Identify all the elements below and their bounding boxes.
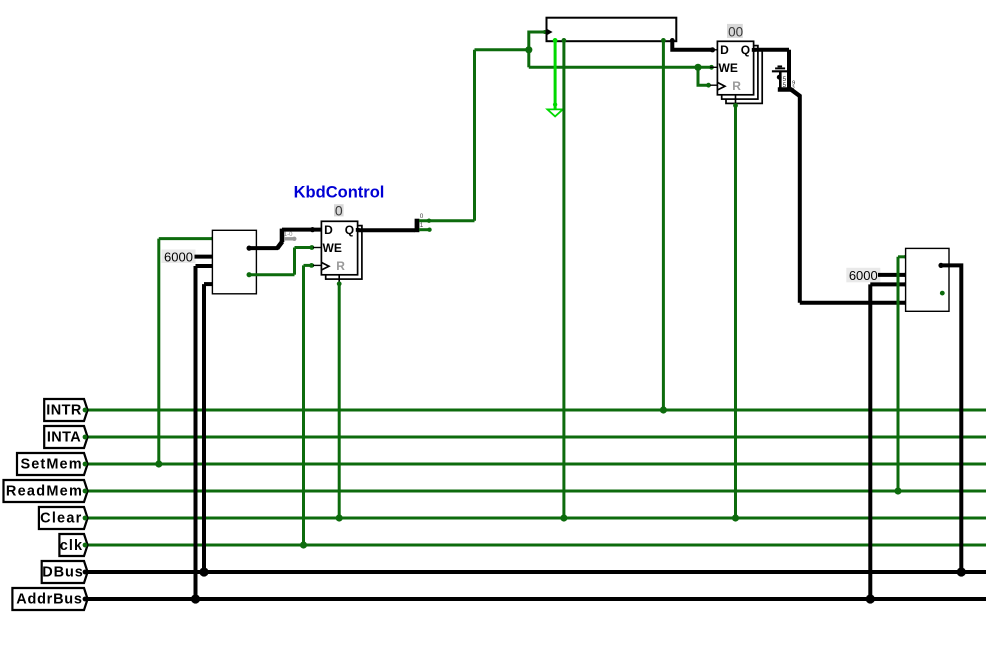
register FF2 value label 00 bbox=[727, 24, 743, 40]
wire 6000 left to box bbox=[195, 255, 213, 259]
splitter S1 diagonal bbox=[277, 242, 282, 249]
wire clk riser bbox=[302, 265, 305, 545]
wire top box pin3 to INTR bbox=[662, 41, 665, 410]
flip-flop U1 KbdControl register bbox=[313, 221, 362, 279]
svg-text:R: R bbox=[732, 79, 741, 93]
svg-text:R: R bbox=[336, 259, 345, 273]
splitter S1 bar bbox=[280, 229, 285, 242]
wire diagonal to riser bbox=[791, 90, 800, 97]
wire bit0 top horizontal bbox=[475, 48, 529, 51]
node top box pin2 port bbox=[562, 38, 567, 43]
wire AddrBus right into box bbox=[870, 282, 905, 286]
node right box addr port bbox=[904, 282, 909, 287]
wire FF1 Q output bbox=[358, 228, 415, 232]
node AddrBus right junction bbox=[866, 594, 875, 603]
wire splitter S2 bit0 leg bbox=[419, 219, 475, 222]
node FF1 R port bbox=[337, 281, 342, 286]
wire WE riser bbox=[293, 248, 296, 275]
subcircuit left box bbox=[212, 230, 256, 293]
node top box pin4 port bbox=[670, 38, 675, 43]
svg-text:D: D bbox=[324, 223, 333, 237]
wire clk bus horizontal bbox=[88, 544, 986, 547]
svg-text:6000: 6000 bbox=[164, 249, 193, 264]
node right box output port bbox=[938, 263, 943, 268]
svg-text:KbdControl: KbdControl bbox=[294, 184, 385, 202]
svg-text:WE: WE bbox=[323, 241, 342, 255]
wire AddrBus left vertical bbox=[194, 266, 198, 599]
pin INTR bbox=[44, 399, 87, 421]
pin DBus bbox=[42, 561, 88, 583]
wire riser down right side bbox=[798, 95, 802, 303]
node FF2 R port bbox=[733, 103, 738, 108]
svg-text:WE: WE bbox=[719, 61, 738, 75]
wire FF1 R stub bbox=[338, 275, 340, 283]
constant 6000 left bbox=[162, 249, 196, 264]
wire Clear bus horizontal bbox=[88, 517, 986, 520]
node right box green port bbox=[904, 254, 909, 259]
pin INTA bbox=[44, 426, 87, 448]
svg-text:SetMem: SetMem bbox=[20, 456, 82, 472]
wire splitter S2 bit1 stub bbox=[419, 228, 429, 231]
splitter S2 bar bbox=[415, 219, 420, 233]
svg-text:Q: Q bbox=[741, 43, 750, 57]
wire clk to FF1 clock bbox=[304, 264, 315, 267]
wire ground bar bbox=[778, 87, 792, 92]
svg-text:Q: Q bbox=[345, 223, 354, 237]
node FF2 D port bbox=[710, 47, 715, 52]
ground symbol G2 bbox=[772, 66, 795, 89]
wire to FF1 WE bbox=[295, 246, 315, 249]
wire ReadMem into right box bbox=[898, 255, 906, 258]
wire SetMem to KbdMapper box (vertical) bbox=[157, 239, 160, 464]
constant 6000 right bbox=[846, 268, 880, 283]
subcircuit right box bbox=[906, 248, 949, 311]
node left box data port bbox=[211, 282, 216, 287]
ground G1 bbox=[547, 109, 562, 116]
node Clear junction at FF1 bbox=[336, 514, 343, 521]
node FF2 clock port bbox=[706, 83, 711, 88]
wire DBus bus horizontal bbox=[88, 570, 986, 574]
wire Q down to ground bar bbox=[787, 50, 791, 90]
wire WE line to FF2 bbox=[529, 66, 713, 69]
pin SetMem bbox=[17, 453, 88, 475]
wire AddrBus bus horizontal bbox=[88, 597, 986, 601]
node left box green input port bbox=[211, 236, 216, 241]
wire bright green down bbox=[554, 41, 557, 109]
wire DBus into left box bbox=[204, 282, 212, 286]
node INTR junction bbox=[660, 406, 667, 413]
svg-text:INTR: INTR bbox=[46, 402, 82, 418]
node right box data-in port bbox=[904, 300, 909, 305]
svg-text:0: 0 bbox=[420, 213, 424, 220]
wire splitter S1 leg 1-0 to D bbox=[282, 228, 321, 232]
wire right box output bbox=[941, 265, 961, 572]
wire 6000 right to box bbox=[878, 273, 906, 277]
node left box green output port bbox=[247, 272, 252, 277]
wire FF2 R to Clear bbox=[734, 106, 737, 519]
svg-text:DBus: DBus bbox=[42, 564, 83, 580]
node left box addr port bbox=[211, 264, 216, 269]
wire to right box data-in bbox=[800, 301, 906, 305]
svg-text:1: 1 bbox=[420, 222, 424, 229]
pin ReadMem bbox=[4, 480, 88, 502]
wire DBus left vertical bbox=[202, 284, 206, 572]
node ReadMem junction bbox=[894, 487, 901, 494]
splitter S1 unconnected leg bbox=[284, 237, 294, 240]
pin clk bbox=[59, 534, 87, 556]
wire FF1 R to Clear bbox=[338, 284, 341, 518]
wire SetMem to KbdMapper box (horizontal) bbox=[159, 237, 213, 240]
node top box pin3 port bbox=[661, 38, 666, 43]
node left box black output port bbox=[247, 246, 252, 251]
node right box 6000 port bbox=[904, 272, 909, 277]
svg-text:D: D bbox=[720, 43, 729, 57]
node SetMem junction bbox=[155, 460, 162, 467]
wire WE junction to FF2 clock bbox=[698, 67, 710, 85]
pin AddrBus bbox=[12, 588, 87, 610]
node DBus right junction bbox=[957, 567, 966, 576]
flip-flop U2 top-right register bbox=[710, 41, 762, 103]
wire AddrBus into left box bbox=[196, 264, 213, 268]
node DBus left junction bbox=[199, 567, 208, 576]
node FF1 D port bbox=[310, 227, 315, 232]
wire ReadMem bus horizontal bbox=[88, 490, 986, 493]
node right box unconnected port bbox=[940, 291, 945, 296]
register FF1 value label 0 bbox=[334, 202, 344, 218]
wire bit0 riser to top bbox=[473, 50, 476, 221]
wire INTA bus horizontal bbox=[88, 436, 986, 439]
svg-text:00: 00 bbox=[728, 25, 743, 40]
pin Clear bbox=[39, 507, 88, 529]
node FF2 WE port bbox=[709, 65, 714, 70]
wire AddrBus right vertical bbox=[868, 284, 872, 599]
node clk junction bbox=[300, 541, 307, 548]
wire to top box clock bbox=[529, 32, 545, 50]
node FF1 WE port bbox=[309, 245, 314, 250]
wire top box pin4 to FF2 D bbox=[672, 41, 713, 50]
top box clock arrow bbox=[547, 29, 553, 36]
svg-text:Clear: Clear bbox=[40, 510, 82, 526]
wire junction down to WE line bbox=[527, 50, 530, 68]
wire SetMem bus horizontal bbox=[88, 463, 986, 466]
svg-text:1-0: 1-0 bbox=[284, 232, 293, 238]
node Clear junction mid bbox=[560, 514, 567, 521]
wire left box green output bbox=[249, 273, 294, 276]
svg-text:0: 0 bbox=[335, 202, 343, 218]
node Clear junction right bbox=[732, 514, 739, 521]
wire ReadMem right vertical bbox=[897, 257, 900, 491]
subcircuit top box bbox=[547, 18, 677, 42]
svg-text:ReadMem: ReadMem bbox=[6, 483, 83, 499]
node WE junction bbox=[694, 64, 701, 71]
node green junction bbox=[525, 46, 532, 53]
wire INTR bus horizontal bbox=[88, 409, 986, 412]
wire FF2 Q output bbox=[754, 48, 789, 52]
wire FF2 R stub bbox=[735, 95, 737, 105]
node top box pin1 port bbox=[553, 38, 558, 43]
wire left box output to splitter trunk bbox=[249, 246, 278, 250]
node FF1 clock port bbox=[309, 263, 314, 268]
svg-text:6000: 6000 bbox=[849, 268, 878, 283]
svg-text:clk: clk bbox=[60, 538, 83, 554]
svg-text:AddrBus: AddrBus bbox=[16, 591, 82, 607]
svg-text:INTA: INTA bbox=[47, 429, 81, 445]
node top box clock port bbox=[543, 30, 547, 34]
node AddrBus left junction bbox=[191, 594, 200, 603]
node left box 6000 port bbox=[211, 254, 216, 259]
wire top box pin2 to Clear bbox=[562, 41, 565, 518]
